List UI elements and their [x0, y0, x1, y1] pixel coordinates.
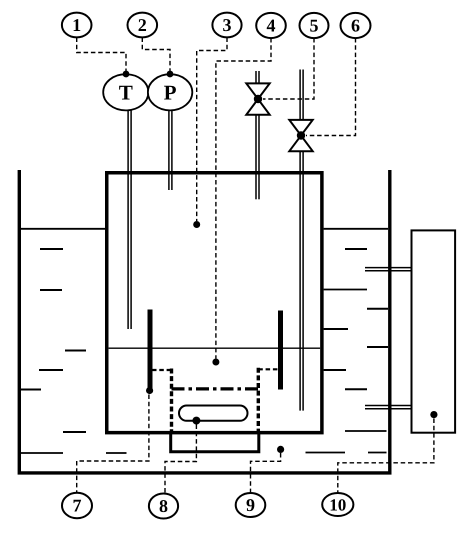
leader line 7 from electrode dot [77, 387, 154, 493]
gauge P (pressure) [148, 74, 192, 110]
valve B (bowtie) [289, 120, 312, 151]
leader line 10 from circulator dot [338, 411, 438, 493]
gauge T (thermometer) [103, 74, 148, 110]
autoclave vessel [107, 173, 322, 433]
water mark bottom left long [21, 452, 63, 454]
callout circle 2 [128, 13, 158, 38]
leader line 9 from bath water dot [251, 446, 285, 493]
callout circle 1 [62, 13, 92, 38]
circulation port lower (double line) [365, 406, 411, 409]
callout circle 5 [300, 13, 329, 38]
electrode bar left [148, 310, 153, 391]
leader line 5 to valve A [263, 38, 314, 99]
water mark right 2 long [324, 289, 367, 291]
leader line 4 to liquid dot [212, 38, 271, 366]
heater enclosure right side (hatched) [257, 368, 260, 431]
water mark left 1 [40, 248, 63, 250]
water mark under vessel right 2 [306, 452, 346, 454]
heater lower box below vessel [171, 433, 259, 452]
electrode bar right [278, 311, 283, 390]
water bath tank walls [19, 170, 390, 473]
callout circle 4 [256, 13, 286, 38]
callout circle 9 [236, 493, 266, 517]
leader line 8 from heating element dot [165, 417, 200, 494]
callout circle 7 [62, 493, 92, 519]
water mark right 1 [345, 248, 367, 250]
callout circle 10 [322, 493, 353, 516]
valve A (bowtie) [246, 83, 269, 114]
circulation port upper (double line) [365, 268, 411, 271]
water mark left 6 [63, 431, 86, 433]
water mark right 5 [367, 346, 388, 348]
pipe B lower (dip tube into vessel) [300, 151, 303, 410]
water mark bottom under vessel left [106, 452, 127, 454]
heater enclosure right ear (dashed) [258, 368, 278, 370]
heating element (stadium oval) [179, 406, 248, 421]
water mark right 4 [324, 328, 348, 330]
water mark left 3 [65, 350, 86, 352]
leader line 2 to pressure gauge dot [142, 38, 173, 78]
water mark under vessel right 1 [345, 430, 387, 432]
water mark right 6 [324, 369, 346, 371]
leader line 6 to valve B [306, 38, 356, 136]
pipe B upper (double line above valve B) [300, 70, 303, 121]
leader line 3 to vessel headspace dot [193, 38, 227, 229]
water mark left 5 [21, 389, 41, 391]
thermometer stem (double line) [128, 110, 131, 329]
heater enclosure left ear (dashed) [152, 369, 172, 371]
heater enclosure top (dash-dot) [172, 387, 259, 390]
bath water surface right [324, 228, 388, 230]
water mark right 3 [367, 308, 388, 310]
water mark under vessel right 3 [368, 452, 387, 454]
pressure gauge stem (double line) [169, 110, 172, 190]
leader line 1 to thermometer dot [77, 38, 130, 78]
circulator unit box [412, 230, 456, 432]
heater enclosure left side (hatched) [170, 369, 173, 432]
callout circle 8 [149, 494, 178, 519]
callout circle 6 [341, 13, 371, 38]
liquid level line in vessel [109, 347, 321, 349]
callout circle 3 [212, 13, 241, 38]
water mark left 2 [40, 289, 62, 291]
water mark left 4 [39, 369, 63, 371]
pipe A lower (double line into vessel) [256, 115, 259, 200]
water mark right 7 [345, 388, 367, 390]
bath water surface left [21, 228, 105, 230]
pipe A upper (double line above valve A) [256, 71, 259, 84]
